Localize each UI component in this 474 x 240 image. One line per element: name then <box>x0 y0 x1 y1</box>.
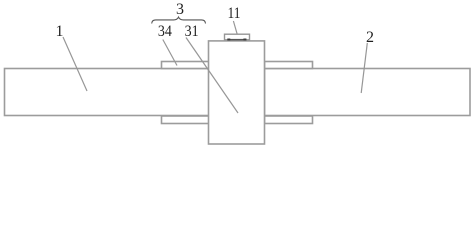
left bar (part 1) <box>5 69 210 116</box>
svg-text:2: 2 <box>366 29 374 46</box>
right bar (part 2) <box>265 69 471 116</box>
leader line for 1 <box>63 37 87 91</box>
svg-text:11: 11 <box>228 5 241 22</box>
leader line for 11 <box>233 21 237 34</box>
top-left clamp plate (part 34) <box>162 62 210 69</box>
leader line for 34 <box>163 40 177 66</box>
svg-text:3: 3 <box>176 1 184 18</box>
central block (part 31) <box>209 41 265 144</box>
cap inner dark strip <box>228 39 247 41</box>
bottom-left clamp plate <box>162 116 210 124</box>
svg-text:1: 1 <box>56 23 64 40</box>
svg-text:34: 34 <box>158 23 172 40</box>
leader line for 31 <box>186 38 238 114</box>
top cap (part 11) <box>225 34 250 40</box>
svg-text:31: 31 <box>185 23 199 40</box>
brace grouping 34 and 31 under label 3 <box>152 17 206 23</box>
leader line for 2 <box>361 43 367 93</box>
top-right clamp plate <box>265 62 313 69</box>
bottom-right clamp plate <box>265 116 313 124</box>
